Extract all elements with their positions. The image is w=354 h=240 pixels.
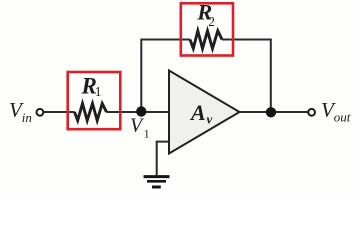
wire output from op-amp to terminal — [240, 111, 308, 113]
input terminal — [37, 109, 44, 116]
ground — [144, 177, 170, 187]
svg-text:out: out — [334, 110, 351, 125]
op-amp U1 (gain block Av) — [169, 71, 240, 154]
svg-text:1: 1 — [95, 84, 102, 99]
svg-text:in: in — [22, 110, 32, 125]
svg-text:2: 2 — [208, 14, 215, 29]
svg-text:v: v — [207, 112, 213, 127]
ground stub wire — [157, 142, 169, 176]
red highlight box around R2 — [181, 3, 233, 55]
output node junction dot — [266, 107, 276, 117]
node V1 junction dot — [136, 106, 146, 116]
resistor R2 — [190, 31, 222, 49]
red highlight box around R1 — [68, 72, 121, 129]
output terminal — [308, 109, 315, 116]
wire input from terminal to op-amp — [44, 111, 169, 113]
svg-text:1: 1 — [144, 126, 150, 140]
svg-text:A: A — [189, 100, 206, 125]
resistor R1 — [75, 104, 107, 121]
wire feedback: up from node V1, across top — [141, 40, 270, 113]
